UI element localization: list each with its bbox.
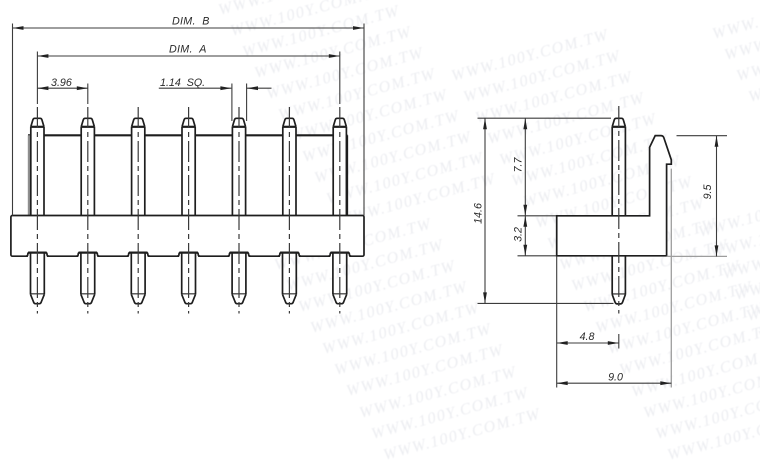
svg-text:WWW.100Y.COM.TW: WWW.100Y.COM.TW — [711, 0, 760, 43]
svg-text:7.7: 7.7 — [513, 157, 525, 173]
svg-text:DIM. B: DIM. B — [172, 16, 210, 28]
svg-text:3.96: 3.96 — [51, 77, 72, 89]
svg-text:14.6: 14.6 — [473, 203, 485, 224]
svg-text:3.2: 3.2 — [513, 227, 525, 242]
svg-text:9.5: 9.5 — [702, 185, 714, 200]
svg-text:DIM. A: DIM. A — [169, 44, 207, 56]
svg-text:1.14 SQ.: 1.14 SQ. — [160, 77, 205, 89]
svg-text:4.8: 4.8 — [580, 331, 595, 343]
svg-text:9.0: 9.0 — [608, 371, 623, 383]
